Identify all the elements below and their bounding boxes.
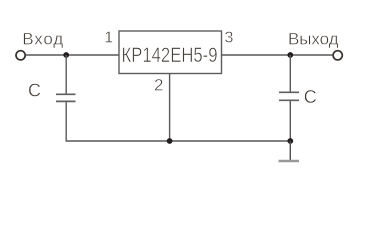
svg-text:С: С [304,87,317,107]
svg-text:КР142ЕН5-9: КР142ЕН5-9 [122,44,218,67]
ground [279,160,300,163]
svg-text:2: 2 [154,76,163,95]
node input junction [63,52,69,58]
node output junction [287,52,293,58]
wire left cap lower [65,102,67,141]
svg-text:С: С [28,80,41,100]
terminal input [16,51,25,60]
svg-text:3: 3 [225,30,234,47]
node ground junction [287,138,293,144]
wire right cap lower [289,101,291,141]
wire pin 2 [169,74,171,142]
svg-text:Вход: Вход [22,30,63,49]
wire bottom rail [66,140,291,142]
wire left cap upper [65,55,67,94]
wire to ground [289,141,291,161]
regulator U1 box [119,31,222,74]
capacitor C2 plates [279,91,299,93]
node pin2 junction [167,138,173,144]
wire output rail [222,54,333,56]
wire right cap upper [289,55,291,92]
svg-text:Выход: Выход [288,29,339,48]
capacitor C1 plates [56,93,76,95]
wire input rail [26,54,119,56]
svg-text:1: 1 [104,29,113,46]
terminal output [333,51,342,60]
